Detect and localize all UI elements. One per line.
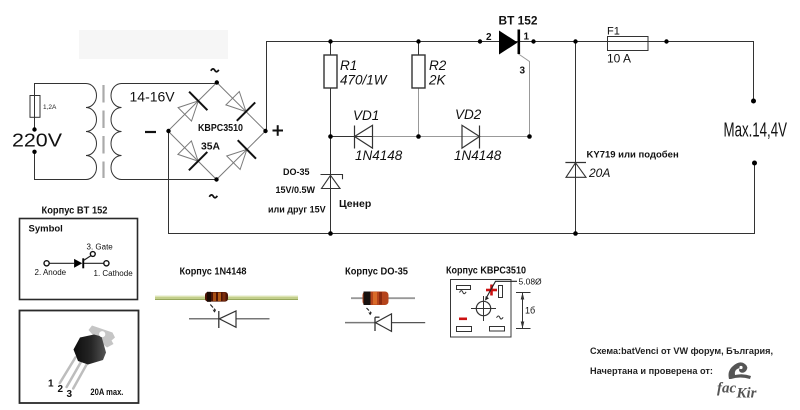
svg-text:2. Anode: 2. Anode	[35, 268, 67, 277]
svg-text:R2: R2	[429, 58, 447, 73]
svg-text:Корпус BT 152: Корпус BT 152	[42, 205, 108, 217]
svg-text:10 A: 10 A	[607, 52, 631, 66]
svg-text:1N4148: 1N4148	[454, 148, 502, 163]
svg-text:20A max.: 20A max.	[90, 387, 123, 397]
svg-text:14-16V: 14-16V	[130, 89, 176, 105]
svg-text:3: 3	[67, 389, 73, 400]
svg-text:Схема:batVenci от VW форум, Бъ: Схема:batVenci от VW форум, България,	[590, 346, 773, 357]
svg-text:Kir: Kir	[736, 386, 757, 402]
svg-text:1,2A: 1,2A	[43, 104, 57, 111]
svg-text:KY719 или подобен: KY719 или подобен	[587, 150, 679, 161]
svg-text:VD2: VD2	[455, 107, 482, 122]
svg-text:KBPC3510: KBPC3510	[198, 123, 243, 134]
svg-text:220V: 220V	[12, 131, 62, 151]
svg-text:15V/0.5W: 15V/0.5W	[276, 185, 316, 195]
svg-text:VD1: VD1	[353, 108, 379, 123]
svg-text:fac: fac	[717, 381, 736, 397]
svg-text:F1: F1	[607, 26, 620, 38]
svg-text:Ценер: Ценер	[339, 198, 371, 210]
svg-text:2: 2	[486, 32, 492, 43]
svg-text:Корпус DO-35: Корпус DO-35	[345, 266, 408, 278]
svg-text:BT 152: BT 152	[499, 16, 538, 28]
svg-text:или друг 15V: или друг 15V	[268, 205, 326, 215]
svg-text:Корпус 1N4148: Корпус 1N4148	[180, 266, 247, 278]
svg-text:DO-35: DO-35	[283, 167, 310, 177]
svg-text:1: 1	[48, 379, 54, 390]
svg-text:Корпус KBPC3510: Корпус KBPC3510	[446, 265, 526, 277]
svg-text:Symbol: Symbol	[29, 224, 63, 235]
svg-text:Начертана и проверена от:: Начертана и проверена от:	[590, 366, 713, 377]
svg-text:5.08Ø: 5.08Ø	[519, 277, 543, 287]
svg-text:1: 1	[524, 32, 530, 43]
svg-text:R1: R1	[340, 58, 357, 73]
svg-text:35A: 35A	[201, 142, 220, 153]
svg-text:3: 3	[520, 66, 526, 77]
svg-text:2: 2	[58, 384, 64, 395]
svg-text:3. Gate: 3. Gate	[87, 243, 114, 252]
svg-text:470/1W: 470/1W	[340, 73, 388, 88]
svg-text:Max.14,4V: Max.14,4V	[724, 120, 788, 142]
svg-text:1. Cathode: 1. Cathode	[94, 269, 134, 278]
svg-text:1б: 1б	[525, 306, 535, 316]
svg-text:2K: 2K	[428, 73, 447, 88]
svg-text:1N4148: 1N4148	[355, 148, 403, 163]
svg-text:20A: 20A	[588, 166, 610, 180]
